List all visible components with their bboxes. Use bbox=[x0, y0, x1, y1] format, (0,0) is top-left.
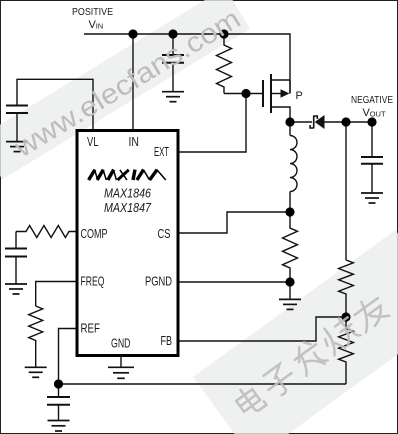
svg-text:COMP: COMP bbox=[81, 226, 108, 241]
inductor L1 bbox=[290, 136, 297, 192]
resistor R4 feedback bottom bbox=[339, 317, 354, 384]
wire output node down to FB divider bbox=[345, 122, 347, 260]
net label POSITIVE VIN bbox=[72, 7, 113, 31]
resistor R3 feedback top bbox=[339, 260, 354, 317]
svg-text:MAX1847: MAX1847 bbox=[104, 201, 152, 215]
svg-text:IN: IN bbox=[96, 22, 104, 31]
svg-text:FREQ: FREQ bbox=[81, 274, 105, 289]
wire FREQ pin bbox=[36, 282, 76, 307]
wire switch node to diode bbox=[290, 121, 312, 123]
wire R2 to ground bbox=[289, 282, 291, 299]
watermark band upper bbox=[0, 0, 250, 179]
wire REF pin bbox=[59, 329, 76, 385]
wire C3 to ground bbox=[371, 164, 373, 193]
ground G8 bbox=[48, 421, 70, 432]
diode D1 schottky cathode bbox=[310, 116, 317, 129]
junction IN rail bbox=[128, 29, 137, 38]
wire diode to output node bbox=[325, 121, 373, 123]
junction output node bbox=[341, 117, 350, 126]
svg-text:EXT: EXT bbox=[154, 144, 169, 159]
ground G1 bbox=[6, 142, 28, 152]
wire C4 to ground bbox=[15, 257, 17, 285]
wire output cap top bbox=[371, 122, 373, 157]
wire REF cap top bbox=[58, 384, 60, 397]
resistor R1 gate pull-up bbox=[217, 34, 232, 94]
wire C2 to ground bbox=[172, 63, 174, 92]
wire COMP cap top bbox=[15, 232, 17, 249]
resistor R6 FREQ bbox=[29, 306, 43, 367]
capacitor C5 REF bypass bbox=[47, 397, 70, 405]
svg-text:P: P bbox=[296, 90, 303, 102]
wire R4 to REF node bbox=[59, 383, 347, 385]
hanzi you bbox=[350, 293, 390, 333]
hanzi dian bbox=[232, 383, 266, 418]
wire C2 top bbox=[172, 34, 174, 55]
svg-text:OUT: OUT bbox=[370, 110, 386, 119]
transistor Q1 arrow bbox=[281, 89, 290, 98]
svg-text:FB: FB bbox=[161, 333, 173, 348]
capacitor C1 VL bypass bbox=[6, 106, 28, 114]
wire inductor to sense node bbox=[289, 192, 291, 213]
wire VL pin bbox=[17, 79, 93, 130]
svg-text:IN: IN bbox=[129, 134, 140, 149]
ground G5 bbox=[108, 367, 134, 378]
junction REF node bbox=[54, 379, 63, 388]
hanzi zi bbox=[260, 362, 299, 400]
ground G3 bbox=[5, 284, 27, 294]
wire EXT pin to gate node bbox=[180, 94, 247, 153]
junction C2 rail bbox=[168, 29, 177, 38]
ground G4 bbox=[25, 367, 47, 377]
ground G7 bbox=[361, 193, 383, 203]
MAXIM logo bbox=[89, 170, 166, 180]
watermark chinese 电子发烧友 bbox=[232, 292, 391, 419]
wire GND pin bbox=[120, 357, 122, 367]
IC U1 MAX1846/MAX1847 bbox=[77, 131, 178, 356]
svg-text:VL: VL bbox=[87, 134, 99, 149]
resistor R2 current sense bbox=[283, 212, 298, 282]
capacitor C2 VIN bypass bbox=[162, 55, 184, 63]
wire FB pin jog bbox=[180, 317, 347, 341]
svg-text:GND: GND bbox=[111, 336, 131, 351]
wire PGND pin bbox=[180, 281, 291, 283]
svg-text:CS: CS bbox=[158, 226, 171, 241]
junction R1 rail bbox=[219, 29, 228, 38]
capacitor C3 output bbox=[361, 157, 383, 164]
transistor Q1 P-channel MOSFET bbox=[263, 74, 290, 122]
wire VIN rail bbox=[84, 34, 290, 94]
junction Cout node bbox=[367, 117, 376, 126]
hanzi shao bbox=[318, 314, 361, 356]
net label NEGATIVE VOUT bbox=[351, 95, 393, 119]
hanzi fa bbox=[290, 337, 329, 377]
wire IN pin bbox=[132, 34, 134, 130]
wire CS pin jog bbox=[180, 212, 291, 233]
wire C5 to ground bbox=[58, 405, 60, 421]
svg-text:REF: REF bbox=[81, 321, 101, 336]
wire C1 to ground bbox=[16, 113, 18, 142]
ground G6 bbox=[279, 299, 301, 309]
watermark www.elecfans.com bbox=[8, 3, 246, 164]
svg-text:NEGATIVE: NEGATIVE bbox=[351, 95, 393, 106]
junction switch node bbox=[285, 117, 294, 126]
svg-text:POSITIVE: POSITIVE bbox=[72, 7, 113, 18]
junction CS node bbox=[285, 207, 294, 216]
capacitor C4 COMP bbox=[5, 249, 27, 257]
ground G2 bbox=[162, 92, 184, 102]
diode D1 triangle bbox=[315, 115, 325, 129]
svg-text:PGND: PGND bbox=[145, 274, 172, 289]
junction PGND node bbox=[285, 277, 294, 286]
wire R1 to gate node bbox=[224, 93, 263, 95]
junction gate node bbox=[241, 89, 250, 98]
resistor R5 COMP bbox=[16, 226, 76, 238]
watermark band lower bbox=[193, 230, 398, 434]
svg-text:MAX1846: MAX1846 bbox=[104, 187, 151, 201]
junction FB node bbox=[341, 312, 350, 321]
wire switch node to inductor bbox=[289, 122, 291, 136]
